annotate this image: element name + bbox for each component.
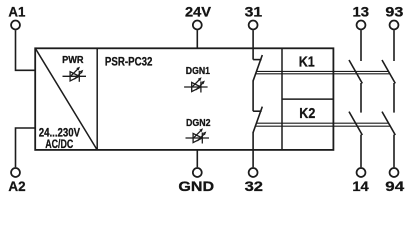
svg-text:PSR-PC32: PSR-PC32	[105, 55, 153, 69]
svg-text:DGN1: DGN1	[186, 66, 211, 77]
svg-text:GND: GND	[178, 178, 214, 194]
svg-text:K2: K2	[299, 105, 315, 122]
svg-text:A1: A1	[8, 3, 25, 19]
svg-text:DGN2: DGN2	[186, 118, 211, 129]
svg-text:24V: 24V	[185, 3, 212, 19]
svg-text:PWR: PWR	[62, 55, 84, 66]
svg-text:31: 31	[245, 3, 263, 19]
svg-text:A2: A2	[8, 178, 25, 194]
svg-text:13: 13	[353, 3, 370, 19]
svg-text:AC/DC: AC/DC	[45, 137, 73, 151]
svg-text:94: 94	[385, 178, 404, 194]
svg-text:32: 32	[245, 178, 264, 194]
svg-text:K1: K1	[299, 54, 315, 71]
svg-text:93: 93	[385, 3, 403, 19]
svg-text:14: 14	[352, 178, 369, 194]
